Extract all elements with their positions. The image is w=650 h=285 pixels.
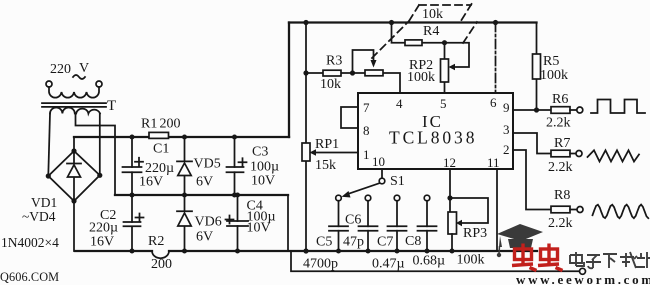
svg-text:11: 11: [487, 155, 500, 170]
svg-text:R5: R5: [543, 54, 559, 69]
resistor R1: [141, 117, 181, 139]
wire -rail step to output common line: [291, 251, 580, 271]
svg-text:0.47µ: 0.47µ: [372, 257, 405, 272]
svg-text:R2: R2: [148, 234, 164, 249]
ganged-pot dashed annotation 10k: [372, 4, 477, 58]
eeworm logo text dianzi xiazaizhan (dark): [570, 252, 650, 268]
switch S1: [336, 169, 430, 201]
capacitor C1: [123, 135, 175, 198]
svg-text:220: 220: [50, 62, 71, 77]
pin 12 wire: [447, 169, 452, 212]
svg-text:10V: 10V: [247, 221, 271, 236]
svg-text:9: 9: [503, 100, 510, 115]
capacitor C5: [303, 201, 348, 272]
svg-text:200: 200: [151, 257, 172, 272]
svg-text:R4: R4: [423, 24, 439, 39]
pin 9 wire: [513, 107, 551, 112]
resistor R6 2.2k: [546, 92, 583, 131]
sine wave output: [593, 205, 649, 219]
svg-text:2.2k: 2.2k: [546, 116, 571, 131]
svg-text:R3: R3: [326, 54, 342, 69]
svg-text:10k: 10k: [320, 77, 341, 92]
svg-text:16V: 16V: [139, 175, 163, 190]
svg-text:R6: R6: [552, 92, 568, 107]
svg-text:16V: 16V: [90, 235, 114, 250]
svg-text:S1: S1: [390, 174, 405, 189]
node after R3: [350, 70, 355, 75]
capacitor C3: [227, 135, 280, 198]
svg-text:Q606.COM: Q606.COM: [0, 270, 59, 284]
svg-text:VD1: VD1: [31, 195, 57, 210]
svg-text:8: 8: [363, 123, 370, 138]
svg-text:10: 10: [372, 154, 385, 169]
svg-text:47p: 47p: [343, 235, 364, 250]
svg-text:10V: 10V: [251, 174, 275, 189]
svg-text:4700p: 4700p: [303, 257, 338, 272]
resistor R4: [389, 20, 445, 46]
svg-text:1: 1: [363, 147, 370, 162]
svg-text:2.2k: 2.2k: [548, 216, 573, 231]
potentiometer RP1 15k: [302, 73, 358, 254]
svg-text:R8: R8: [554, 188, 570, 203]
svg-text:100k: 100k: [457, 253, 485, 268]
pin 2 wire: [513, 150, 551, 210]
svg-text:~VD4: ~VD4: [22, 209, 56, 224]
svg-text:200: 200: [160, 117, 181, 132]
svg-text:100k: 100k: [540, 68, 568, 83]
capacitor C4: [226, 193, 276, 254]
svg-text:100µ: 100µ: [250, 160, 279, 175]
svg-text:V: V: [79, 61, 89, 76]
-rail bottom left: [75, 250, 537, 252]
svg-text:4: 4: [396, 96, 403, 111]
pot section of dual pot (wiper tied): [353, 50, 401, 93]
pin 3 wire: [513, 133, 551, 154]
resistor R8 2.2k: [548, 188, 583, 231]
bridge rectifier VD1-VD4: [46, 148, 103, 203]
svg-text:C7: C7: [377, 235, 393, 250]
svg-text:RP1: RP1: [315, 137, 339, 152]
svg-text:6V: 6V: [196, 230, 213, 245]
svg-text:VD6: VD6: [195, 215, 222, 230]
svg-text:TCL8038: TCL8038: [389, 128, 477, 148]
resistor R5 100k: [533, 23, 569, 111]
svg-text:C6: C6: [345, 213, 361, 228]
square wave output: [591, 100, 645, 114]
svg-text:15k: 15k: [315, 158, 336, 173]
capacitor C8: [405, 201, 445, 269]
wire secondary right to bridge: [99, 114, 101, 176]
wire center tap to mid rail: [76, 114, 116, 196]
zener VD6: [177, 195, 222, 254]
svg-text:RP3: RP3: [463, 226, 487, 241]
wire bridge bottom to -rail: [73, 201, 75, 251]
svg-text:100k: 100k: [407, 70, 435, 85]
svg-text:2.2k: 2.2k: [548, 160, 573, 175]
svg-text:1N4002×4: 1N4002×4: [1, 235, 59, 250]
svg-text:VD5: VD5: [194, 157, 221, 172]
resistor R7 2.2k: [548, 136, 582, 175]
wire bridge top to +rail: [73, 137, 75, 151]
svg-text:12: 12: [443, 155, 456, 170]
wire R3/RP1 branch riser: [303, 20, 308, 76]
0V mid rail: [115, 194, 288, 196]
wire mid rail down to -rail: [287, 195, 289, 251]
triangle wave output: [588, 150, 640, 161]
pins 7-8 external loop: [341, 107, 358, 128]
potentiometer RP2 100k: [407, 40, 469, 93]
label VD1-VD4 1N4002x4: [1, 195, 59, 250]
label 220V mains: [50, 61, 89, 79]
svg-text:C3: C3: [252, 145, 268, 160]
svg-text:R1: R1: [141, 117, 157, 132]
IC U1 TCL8038: [358, 93, 513, 170]
wire left riser to top rail: [288, 23, 290, 138]
wire secondary left to bridge: [48, 114, 50, 176]
capacitor C2: [89, 195, 144, 254]
zener VD5: [177, 135, 221, 198]
resistor R3: [306, 54, 352, 93]
eeworm logo graduation cap: [497, 224, 543, 257]
svg-text:5: 5: [440, 96, 447, 111]
potentiometer RP3 100k: [448, 198, 488, 268]
+V top rail: [289, 21, 537, 23]
eeworm logo text chongchong (red): [512, 244, 563, 271]
svg-text:T: T: [107, 98, 116, 114]
svg-text:0.68µ: 0.68µ: [413, 254, 446, 269]
output common terminal: [580, 268, 586, 274]
svg-text:10k: 10k: [422, 7, 443, 22]
resistor R2: [148, 234, 172, 272]
+rail left section: [74, 136, 289, 138]
capacitor C6: [343, 201, 378, 254]
pin 11 wire: [496, 169, 498, 251]
svg-text:3: 3: [503, 122, 510, 137]
pin6 supply wire (dash-dot): [493, 20, 498, 93]
svg-text:R7: R7: [554, 136, 570, 151]
svg-text:6: 6: [490, 95, 497, 110]
svg-text:7: 7: [363, 100, 370, 115]
capacitor C7: [372, 201, 407, 272]
svg-text:220µ: 220µ: [89, 221, 118, 236]
svg-text:2: 2: [503, 142, 510, 157]
svg-text:C5: C5: [316, 235, 332, 250]
transformer T: [42, 81, 116, 114]
svg-text:C8: C8: [405, 234, 421, 249]
svg-text:C1: C1: [153, 142, 169, 157]
svg-text:www.eeworm.com: www.eeworm.com: [516, 272, 650, 285]
svg-text:6V: 6V: [196, 175, 213, 190]
